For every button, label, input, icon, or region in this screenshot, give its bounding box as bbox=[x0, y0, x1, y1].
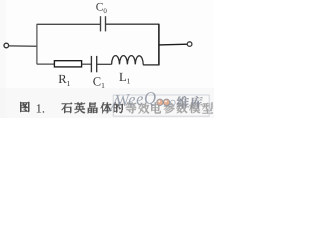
watermark: 库 bbox=[191, 96, 203, 108]
capacitor C1 bbox=[91, 56, 96, 72]
caption: 参 bbox=[164, 102, 175, 114]
caption: 型 bbox=[202, 102, 213, 114]
caption: 数 bbox=[176, 102, 187, 113]
caption: 效 bbox=[138, 102, 149, 114]
caption: 模 bbox=[189, 102, 200, 113]
node B (right junction) bbox=[158, 24, 160, 65]
inductor L1 bbox=[112, 56, 144, 65]
watermark: logo circle o2 bbox=[163, 99, 169, 105]
wire: top rail right (C0 to node B) bbox=[106, 23, 160, 25]
wire: left terminal to node A bbox=[9, 45, 38, 47]
watermark: faint box bbox=[113, 95, 209, 116]
wire: C1 to L1 bbox=[97, 63, 112, 65]
caption: 电 bbox=[151, 102, 161, 114]
caption: 等 bbox=[126, 102, 137, 114]
wire: L1 to node B bbox=[143, 64, 159, 66]
paper wash top-left bbox=[0, 0, 6, 118]
wire: top rail left (node A to C0) bbox=[37, 23, 101, 25]
paper wash bottom bbox=[0, 88, 214, 118]
node A (left junction) bbox=[36, 24, 38, 64]
wire: node B to right terminal bbox=[159, 43, 188, 46]
watermark: W entry tail stroke bbox=[108, 98, 117, 113]
caption: 体 bbox=[101, 102, 112, 114]
resistor R1 bbox=[54, 61, 81, 67]
terminal T2 (right output) bbox=[187, 42, 192, 47]
watermark: logo circle o1 bbox=[157, 99, 163, 105]
svg-text:1.: 1. bbox=[36, 102, 45, 116]
wire: node A to R1 bbox=[37, 63, 55, 65]
watermark: 维 bbox=[177, 96, 189, 108]
caption: 英 bbox=[74, 102, 85, 114]
svg-text:WeeQ: WeeQ bbox=[114, 88, 157, 111]
watermark: logo circle o3 bbox=[170, 100, 175, 105]
terminal T1 (left input) bbox=[4, 43, 9, 48]
caption: 的 bbox=[113, 102, 124, 113]
caption: 石 bbox=[62, 102, 73, 113]
wire: R1 to C1 bbox=[82, 63, 92, 65]
caption: 晶 bbox=[88, 102, 99, 114]
caption: 图 bbox=[20, 102, 30, 113]
capacitor C0 bbox=[101, 16, 106, 31]
